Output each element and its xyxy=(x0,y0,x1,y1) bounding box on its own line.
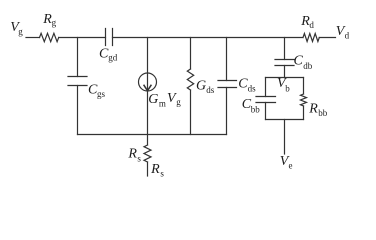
svg-text:b: b xyxy=(285,84,290,94)
wire drain node down to Cdb xyxy=(284,38,286,60)
label R_g xyxy=(42,12,56,28)
wire down to Ve xyxy=(284,120,286,155)
capacitor C_db plates xyxy=(275,60,294,66)
wire gate node down to Cgs xyxy=(77,38,79,77)
wire Vb box bottom side xyxy=(266,119,304,121)
label R_s left of resistor xyxy=(127,147,141,164)
wire Vb box left upper segment xyxy=(265,78,267,97)
wire source branch through current source xyxy=(147,38,149,146)
label R_d xyxy=(300,14,314,30)
capacitor C_bb plates xyxy=(256,97,276,103)
svg-text:gs: gs xyxy=(97,89,106,99)
svg-text:e: e xyxy=(289,160,293,170)
capacitor C_ds plates xyxy=(218,81,237,88)
svg-text:g: g xyxy=(52,18,57,28)
svg-text:R: R xyxy=(127,147,137,162)
wire below Rs xyxy=(147,162,149,176)
current source U1 circle xyxy=(139,73,157,91)
wire Vb box left lower segment xyxy=(265,103,267,120)
svg-text:d: d xyxy=(309,20,314,30)
wire Vb box right lower segment xyxy=(303,106,305,120)
wire Gds branch top xyxy=(190,38,192,70)
label C_gs xyxy=(88,82,106,99)
resistor G_ds zigzag xyxy=(187,69,193,90)
label G_ds xyxy=(196,78,215,95)
svg-text:s: s xyxy=(137,153,141,163)
label C_gd xyxy=(99,46,118,62)
wire top rail from Cgd to Rd xyxy=(113,37,304,39)
label C_ds xyxy=(238,77,256,94)
wire Cds branch top xyxy=(226,38,228,81)
node V_b label xyxy=(277,76,290,94)
label C_bb xyxy=(242,97,261,114)
svg-text:G: G xyxy=(148,92,158,107)
svg-text:G: G xyxy=(196,78,206,93)
svg-text:gd: gd xyxy=(108,53,118,63)
wire Vb box top side xyxy=(266,77,304,79)
wire Rd to Vd xyxy=(319,37,335,39)
bottom rail wire xyxy=(78,134,227,136)
svg-text:bb: bb xyxy=(251,104,260,114)
wire Vb box right upper segment xyxy=(303,78,305,95)
node V_e label xyxy=(280,154,293,171)
svg-text:db: db xyxy=(303,61,313,71)
wire Cgs to bottom rail xyxy=(77,86,79,135)
svg-text:ds: ds xyxy=(206,85,215,95)
svg-text:C: C xyxy=(294,53,304,68)
resistor R_s xyxy=(144,145,151,162)
svg-text:m: m xyxy=(159,98,166,108)
wire from Vg to Rg xyxy=(26,37,40,39)
svg-text:d: d xyxy=(345,31,350,41)
svg-text:R: R xyxy=(308,101,318,116)
svg-text:ds: ds xyxy=(248,83,257,93)
label G_m V_g current source value xyxy=(148,91,181,108)
node V_d label xyxy=(336,24,350,41)
svg-text:R: R xyxy=(150,162,160,177)
svg-text:s: s xyxy=(160,169,164,179)
svg-text:g: g xyxy=(18,26,23,36)
capacitor C_gs plates xyxy=(68,77,87,86)
wire Gds to bottom rail xyxy=(190,90,192,135)
svg-text:bb: bb xyxy=(318,108,328,118)
resistor R_d xyxy=(303,34,319,42)
label C_db xyxy=(294,53,313,71)
wire Rg to Cgd left plate (top rail left) xyxy=(59,37,106,39)
label R_bb xyxy=(308,101,328,118)
capacitor C_gd plates xyxy=(106,29,113,46)
svg-text:g: g xyxy=(176,97,181,107)
node V_g label xyxy=(10,20,23,37)
current source arrow head xyxy=(144,85,151,91)
wire Cdb to Vb box xyxy=(284,66,286,78)
resistor R_g xyxy=(40,33,59,41)
wire Cds to bottom rail xyxy=(226,88,228,135)
label R_s below resistor xyxy=(150,162,164,179)
resistor R_bb zigzag xyxy=(301,94,307,106)
